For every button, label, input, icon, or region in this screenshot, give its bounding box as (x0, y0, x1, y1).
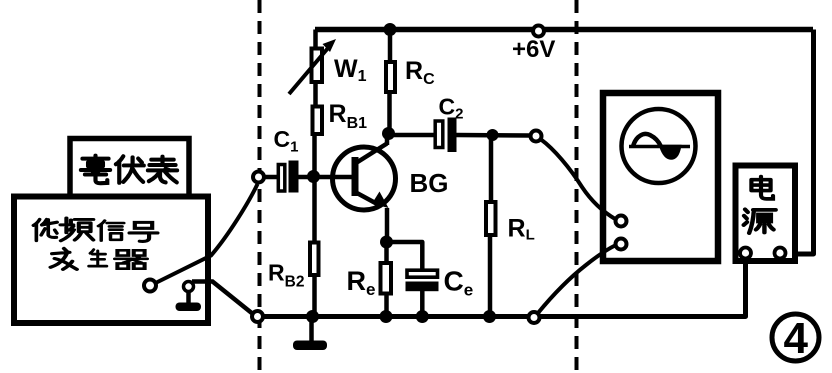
terminal bottom input on dashed line (252, 311, 263, 322)
wire Ce bottom to rail (420, 291, 425, 317)
terminal generator ground (184, 282, 194, 292)
label RB2 (268, 260, 304, 291)
power supply box (736, 166, 796, 262)
label power supply text (744, 177, 776, 234)
svg-text:+6V: +6V (512, 36, 555, 63)
node RB2 bottom junction (306, 310, 319, 323)
svg-text:RC: RC (405, 57, 435, 88)
resistor RB2 (310, 243, 319, 276)
wire RC bottom to collector node (387, 94, 392, 133)
svg-text:RL: RL (508, 215, 535, 244)
terminal power left (740, 248, 751, 259)
wire RL bottom (488, 237, 493, 317)
svg-text:C1: C1 (274, 126, 299, 156)
wire generator to input terminal (157, 184, 258, 283)
label C2 (439, 94, 464, 123)
wire RB2 to bottom rail (312, 277, 317, 317)
dashed boundary line left (258, 0, 262, 371)
wire emitter to node (385, 208, 390, 243)
svg-text:4: 4 (784, 314, 809, 363)
label Ce (444, 266, 474, 300)
wire C1 to transistor base (299, 175, 353, 180)
label C1 (274, 126, 299, 156)
terminal +6V (533, 26, 544, 37)
node Ce bottom junction (416, 310, 429, 323)
terminal bottom output (529, 312, 540, 323)
wire input terminal to C1 (264, 175, 277, 180)
node Re bottom junction (380, 310, 393, 323)
wire right side drop to power box (786, 30, 814, 255)
terminal scope lower (616, 239, 627, 250)
capacitor C2 (435, 118, 456, 153)
ground below RB2 node (293, 317, 327, 351)
terminal generator output (144, 280, 156, 292)
resistor RC (386, 62, 395, 92)
oscilloscope box (603, 93, 718, 261)
node RC top on +6V rail (384, 23, 397, 36)
svg-text:C2: C2 (439, 94, 464, 123)
label W1 (334, 55, 367, 85)
resistor Re (381, 263, 392, 294)
node collector junction (382, 127, 395, 140)
wire bottom terminal to scope lower (538, 246, 615, 314)
resistor RB1 (313, 107, 323, 135)
wire bottom rail (264, 258, 746, 317)
terminal output (531, 131, 542, 142)
svg-text:W1: W1 (334, 55, 367, 85)
wire collector node to C2 (389, 133, 435, 138)
node RL top junction (487, 129, 499, 141)
millivoltmeter box (70, 139, 189, 197)
capacitor C1 (278, 161, 298, 193)
terminal input on dashed line (253, 172, 264, 183)
wire W1 rail from top wire (313, 30, 318, 51)
resistor RL (486, 202, 496, 235)
label RL (508, 215, 535, 244)
oscilloscope screen circle with sine (622, 109, 696, 183)
figure number 4 (772, 314, 819, 363)
wire RC top (388, 30, 393, 64)
wire Re bottom to rail (384, 295, 389, 317)
node RL bottom junction (483, 310, 496, 323)
wire top +6V rail (315, 27, 813, 33)
svg-text:RB2: RB2 (268, 260, 304, 291)
svg-text:BG: BG (410, 168, 449, 198)
svg-text:RB1: RB1 (329, 100, 368, 132)
wire collector to node (385, 132, 390, 145)
node emitter junction (380, 236, 393, 249)
node base junction (307, 170, 320, 183)
label generator text line2 (51, 248, 147, 269)
wire RL rail (489, 135, 494, 201)
label +6V (512, 36, 555, 63)
svg-text:Re: Re (347, 266, 376, 299)
ground in generator (176, 290, 202, 311)
wire emitter node to Ce (387, 242, 423, 270)
label BG (410, 168, 449, 198)
label Re (347, 266, 376, 299)
terminal scope upper (616, 216, 627, 227)
label generator text line1 (33, 218, 157, 241)
label millivoltmeter text (81, 156, 177, 184)
wire RB1 to base node to RB2 (312, 136, 317, 242)
potentiometer W1 (289, 39, 336, 94)
dashed boundary line right (575, 0, 579, 371)
wire generator ground to bottom terminal (192, 282, 252, 314)
wire W1 to RB1 (313, 83, 318, 106)
label RC (405, 57, 435, 88)
wire emitter node to Re (384, 242, 389, 262)
transistor BG (333, 144, 396, 211)
svg-text:Ce: Ce (444, 266, 474, 300)
wire output terminal to scope upper (541, 140, 616, 220)
terminal power right (775, 248, 786, 259)
capacitor Ce (406, 270, 439, 291)
generator box (14, 197, 208, 324)
label RB1 (329, 100, 368, 132)
wire C2 to output terminal (457, 133, 532, 138)
